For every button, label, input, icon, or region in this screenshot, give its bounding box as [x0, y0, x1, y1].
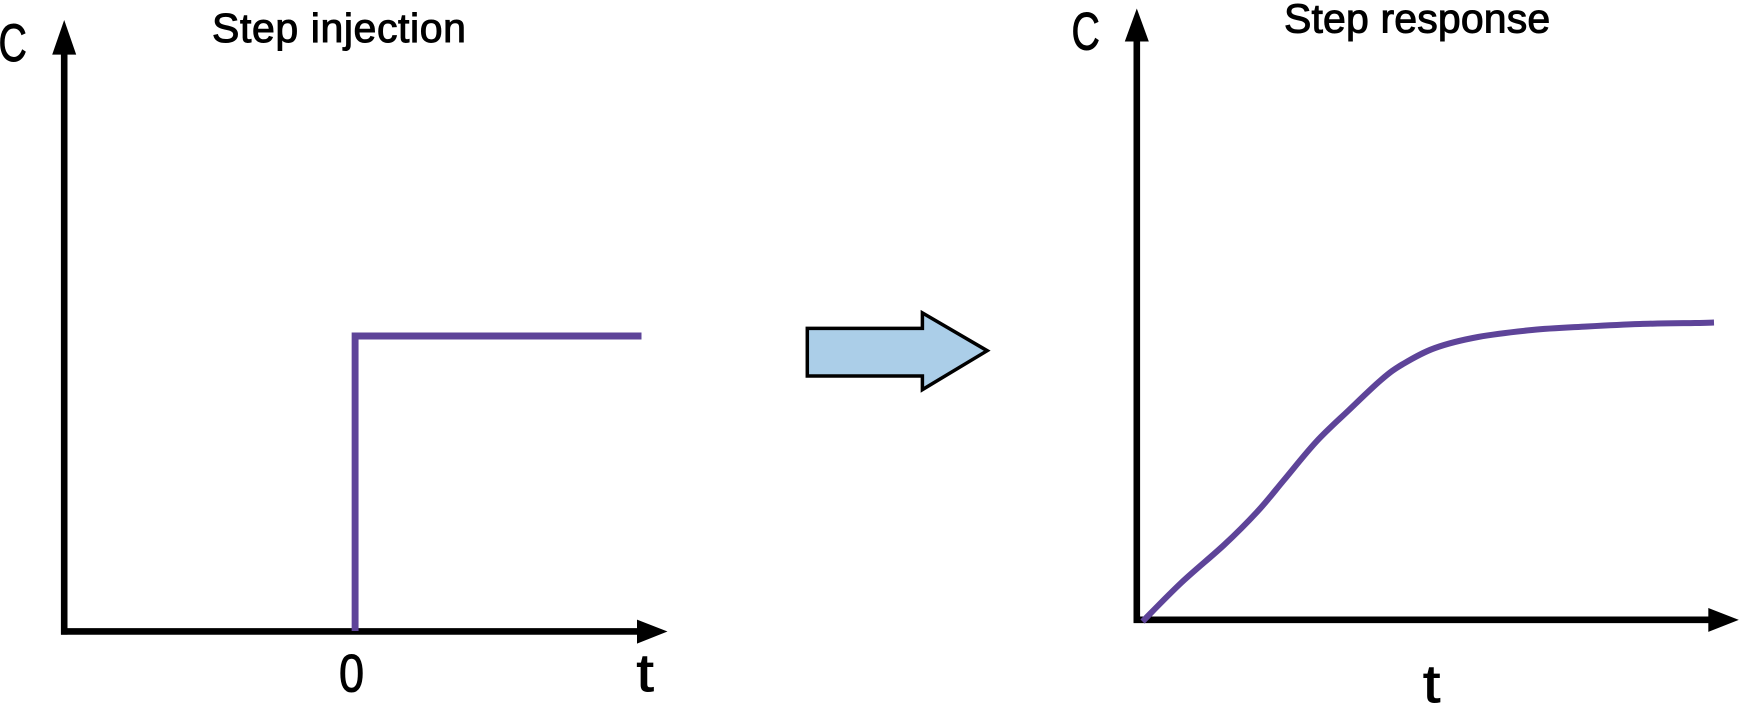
- svg-text:Step response: Step response: [1284, 0, 1550, 41]
- svg-text:t: t: [1423, 655, 1440, 703]
- left plot x-axis: [61, 628, 639, 635]
- svg-text:Step injection: Step injection: [212, 5, 467, 51]
- svg-text:t: t: [637, 644, 654, 703]
- right plot x-axis arrowhead: [1708, 608, 1739, 632]
- left plot y-axis: [61, 50, 68, 635]
- block arrow between plots: [807, 313, 987, 390]
- left plot y-axis arrowhead: [52, 20, 76, 55]
- left plot x-axis arrowhead: [637, 620, 668, 644]
- left plot step function (purple): [355, 336, 641, 631]
- right plot y-axis: [1134, 38, 1141, 623]
- right plot y-axis arrowhead: [1125, 9, 1149, 42]
- right plot step-response curve (purple sigmoid): [1143, 323, 1715, 622]
- svg-text:C: C: [0, 13, 27, 72]
- svg-text:C: C: [1072, 2, 1100, 61]
- svg-text:0: 0: [339, 644, 364, 703]
- right plot x-axis: [1134, 616, 1710, 623]
